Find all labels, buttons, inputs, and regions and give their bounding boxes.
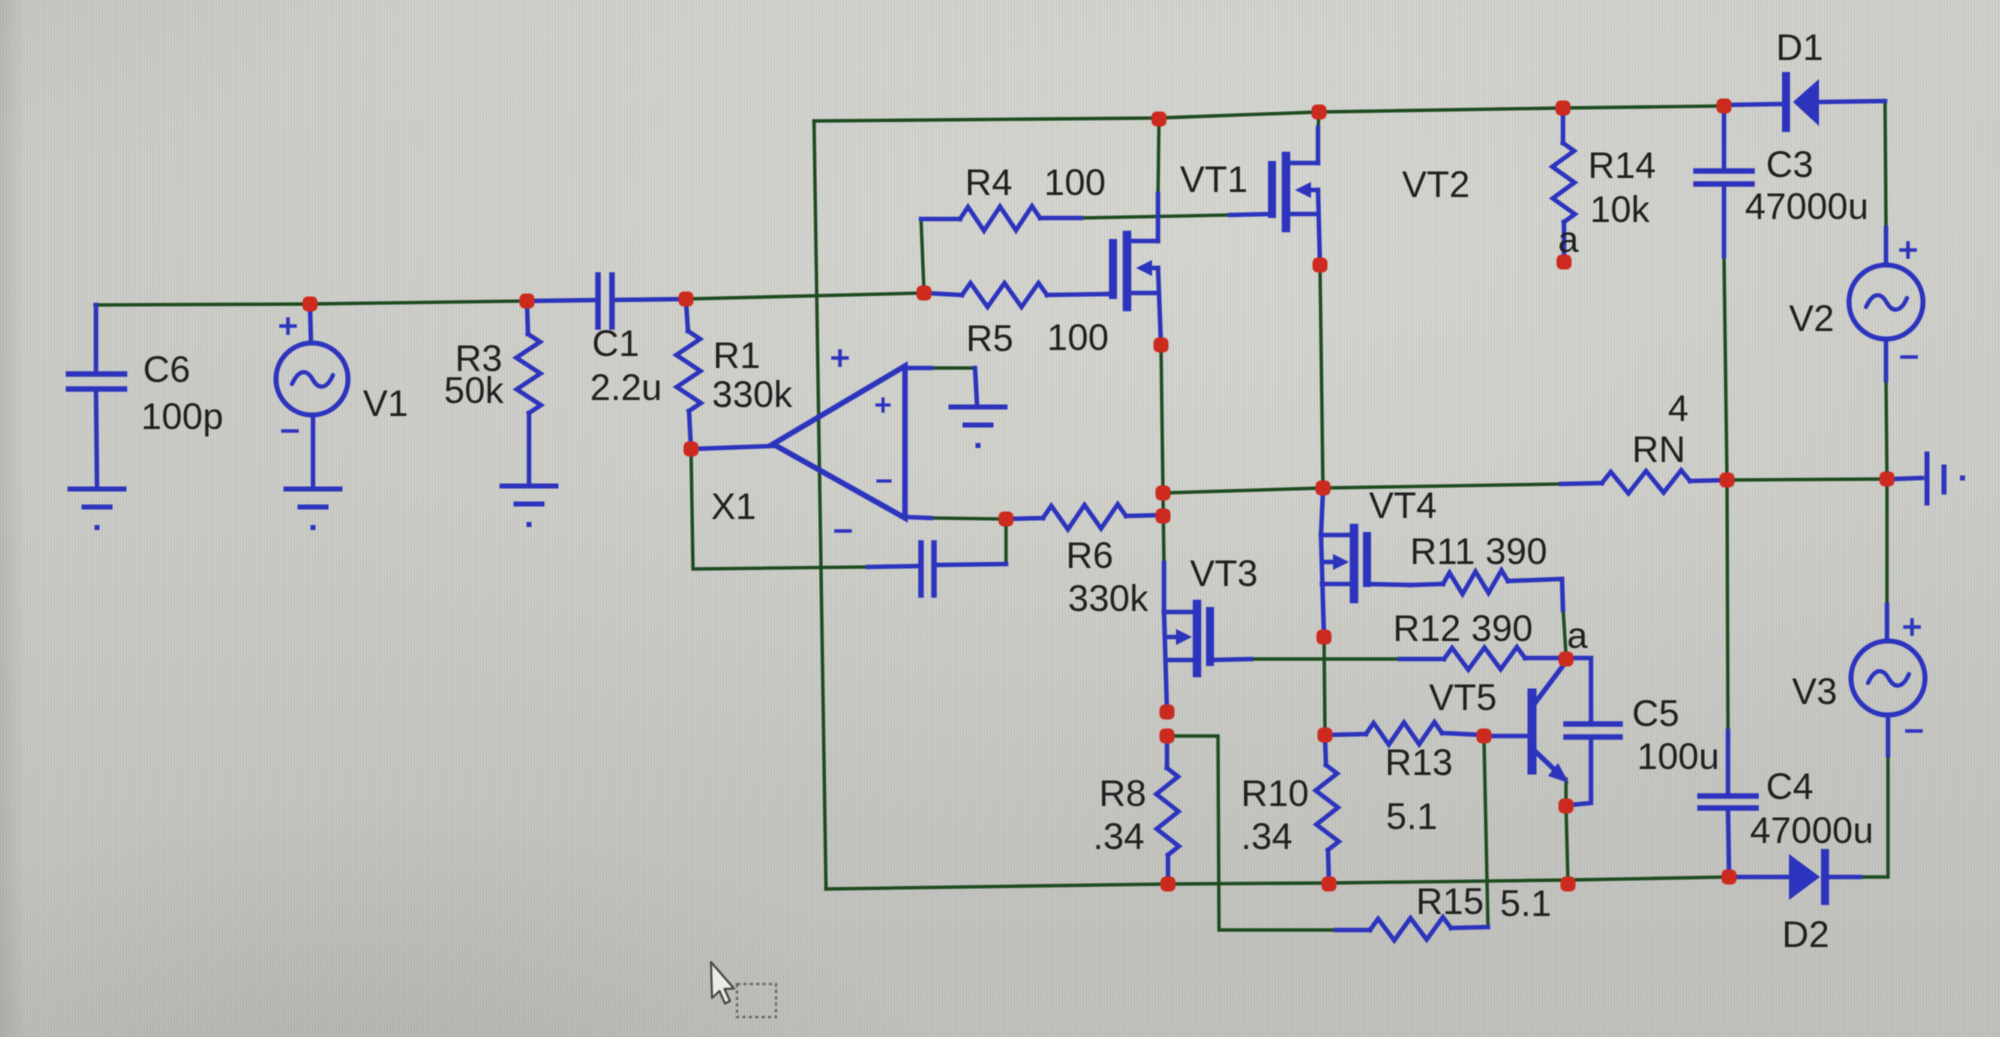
wire input net (C6 / V1 / R3 / C1 / R4-R5 node) — [95, 219, 924, 305]
wire V3 minus to bottom corner to D2 — [1860, 753, 1888, 877]
wire RN to supply ground node — [1727, 479, 1887, 480]
label V2 — [1789, 298, 1834, 339]
junction top rail/VT1 drain — [1152, 112, 1167, 127]
svg-text:10k: 10k — [1590, 189, 1650, 230]
label C5 value — [1637, 736, 1719, 777]
junction input/R4/R5 — [917, 286, 932, 301]
svg-text:100: 100 — [1044, 162, 1106, 203]
transistor VT4 (MOSFET) — [1321, 490, 1410, 637]
junction emitter column/bottom rail — [1561, 877, 1576, 892]
svg-text:VT3: VT3 — [1190, 553, 1258, 594]
junction input/R1 — [679, 292, 694, 307]
wire bottom -V rail — [826, 877, 1729, 889]
svg-text:2.2u: 2.2u — [590, 367, 662, 408]
label R10 — [1241, 773, 1309, 814]
svg-text:C6: C6 — [143, 349, 190, 390]
label C3 value — [1745, 186, 1868, 227]
svg-text:100: 100 — [1047, 317, 1109, 358]
label C3 — [1766, 144, 1813, 185]
label VT1 — [1180, 159, 1248, 200]
label VT2 — [1402, 164, 1470, 205]
svg-text:R8: R8 — [1099, 773, 1146, 814]
junction R6/output column — [1156, 509, 1171, 524]
ground at supply midpoint — [1893, 454, 1965, 503]
label R4 — [965, 162, 1012, 203]
label C4 value — [1750, 810, 1873, 851]
svg-text:X1: X1 — [711, 486, 756, 527]
label R10 value — [1241, 816, 1292, 857]
capacitor C4 — [1700, 731, 1756, 873]
capacitor C1 — [527, 275, 686, 327]
svg-text:RN: RN — [1632, 429, 1685, 470]
svg-text:a: a — [1558, 219, 1579, 260]
transistor VT3 (MOSFET) — [1164, 563, 1251, 712]
wire right rail (D1 to V2) — [1885, 101, 1886, 228]
svg-text:VT1: VT1 — [1180, 159, 1248, 200]
wire VT1 source to VT3 drain column — [1161, 345, 1164, 565]
svg-text:R10: R10 — [1241, 773, 1309, 814]
resistor R4 — [921, 206, 1081, 231]
label R3 value — [444, 370, 504, 411]
junction top rail/C3/D1 — [1717, 99, 1732, 114]
resistor R12 — [1400, 647, 1566, 670]
label R15 value — [1500, 883, 1551, 924]
svg-text:.34: .34 — [1093, 816, 1144, 857]
label X1 — [711, 486, 756, 527]
junction VT2 source — [1313, 258, 1328, 273]
svg-text:C5: C5 — [1632, 693, 1679, 734]
resistor R11 — [1410, 570, 1563, 610]
svg-text:R5: R5 — [966, 318, 1013, 359]
transistor VT2 (MOSFET) — [1230, 128, 1320, 265]
svg-text:5.1: 5.1 — [1386, 796, 1437, 837]
svg-text:100p: 100p — [141, 396, 223, 437]
label R8 value — [1093, 816, 1144, 857]
transistor VT5 (NPN) — [1484, 663, 1569, 783]
junction top rail/R14 — [1556, 101, 1571, 116]
label R1 value — [712, 374, 793, 415]
resistor RN (load) — [1561, 470, 1727, 493]
label V1 — [363, 383, 408, 424]
label D1 — [1776, 27, 1823, 68]
wire top +V rail — [814, 106, 1724, 121]
label node a — [1567, 615, 1588, 656]
svg-text:VT5: VT5 — [1429, 677, 1497, 718]
label VT3 — [1190, 553, 1258, 594]
wire VT2 source to VT4 drain column — [1320, 265, 1323, 490]
diode D2 — [1729, 853, 1860, 901]
svg-text:5.1: 5.1 — [1500, 883, 1551, 924]
ground below V1 — [286, 489, 340, 530]
wire VT5 emitter column — [1566, 779, 1568, 884]
label node a at R14 — [1558, 219, 1579, 260]
svg-text:.34: .34 — [1241, 816, 1292, 857]
junction C4/D2/bottom rail — [1722, 870, 1737, 885]
svg-text:V2: V2 — [1789, 298, 1834, 339]
label V3 — [1792, 671, 1837, 712]
label R13 value — [1386, 796, 1437, 837]
svg-text:R4: R4 — [965, 162, 1012, 203]
wire X1 minus input to R6 — [929, 518, 1006, 519]
wire R15 right to R13 node — [1484, 738, 1488, 927]
svg-text:330k: 330k — [1068, 578, 1149, 619]
source V1 — [276, 306, 348, 487]
svg-text:4: 4 — [1668, 388, 1689, 429]
junction R13/VT5 base/R15 — [1477, 729, 1492, 744]
junction VT1 source — [1154, 338, 1169, 353]
label R12 — [1393, 608, 1533, 649]
label R15 — [1416, 881, 1484, 922]
junction input/R3 — [520, 294, 535, 309]
junction R10/bottom rail — [1322, 877, 1337, 892]
svg-text:a: a — [1567, 615, 1588, 656]
svg-text:VT4: VT4 — [1369, 485, 1437, 526]
resistor R3 — [516, 303, 541, 484]
junction supply ground node — [1880, 472, 1895, 487]
label R13 — [1385, 742, 1453, 783]
wire X1 plus input to ground — [928, 366, 975, 369]
wire C3-C4 midpoint column — [1724, 255, 1728, 731]
label RN — [1632, 429, 1685, 470]
wire V2 minus to ground node to V3 plus — [1886, 378, 1887, 605]
transistor VT1 (MOSFET) — [1108, 194, 1161, 345]
label R3 — [455, 338, 502, 379]
label R11 — [1410, 531, 1547, 572]
source V3 — [1851, 605, 1925, 755]
junction RN line/VT4 drain — [1316, 481, 1331, 496]
label R6 — [1066, 535, 1113, 576]
wire R4 to VT2 gate — [1081, 215, 1230, 218]
svg-text:R15: R15 — [1416, 881, 1484, 922]
junction VT3 source — [1160, 705, 1175, 720]
label C4 — [1766, 766, 1813, 807]
label R8 — [1099, 773, 1146, 814]
label RN value — [1668, 388, 1689, 429]
svg-text:D2: D2 — [1782, 914, 1829, 955]
label D2 — [1782, 914, 1829, 955]
resistor R14 — [1552, 110, 1575, 254]
wire output node horizontal to RN — [1163, 484, 1561, 493]
diode D1 — [1724, 76, 1885, 128]
junction output column/RN line — [1156, 486, 1171, 501]
wire R11 corner to node a — [1563, 608, 1566, 655]
capacitor C2 — [868, 543, 1006, 595]
junction RN/C3-C4 column — [1720, 473, 1735, 488]
label C1 value — [590, 367, 662, 408]
node a junction R11/R12/VT5 collector — [1559, 652, 1574, 667]
resistor R5 — [924, 283, 1108, 307]
svg-text:R13: R13 — [1385, 742, 1453, 783]
svg-text:C1: C1 — [592, 323, 639, 364]
svg-text:R11 390: R11 390 — [1410, 531, 1547, 572]
resistor R8 — [1156, 738, 1179, 884]
wire left power vertical (X1 supply) — [814, 121, 826, 889]
ground at X1 plus input — [951, 407, 1005, 448]
svg-text:R1: R1 — [713, 335, 760, 376]
label R5 — [966, 318, 1013, 359]
junction top rail/VT2 drain — [1312, 105, 1327, 120]
svg-text:R6: R6 — [1066, 535, 1113, 576]
svg-text:R14: R14 — [1588, 145, 1656, 186]
svg-text:C4: C4 — [1766, 766, 1813, 807]
label R6 value — [1068, 578, 1149, 619]
resistor R10 — [1316, 737, 1339, 884]
resistor R1 — [676, 301, 701, 449]
svg-text:D1: D1 — [1776, 27, 1823, 68]
svg-text:V3: V3 — [1792, 671, 1837, 712]
wire VT2 drain column — [1318, 112, 1319, 130]
junction R8/R15 tap — [1160, 729, 1175, 744]
resistor R13 — [1325, 722, 1484, 745]
label C5 — [1632, 693, 1679, 734]
op-amp X1 — [691, 351, 977, 531]
wire X1 output / C2 loop — [691, 449, 1006, 569]
svg-text:50k: 50k — [444, 370, 504, 411]
junction input/V1 — [303, 297, 318, 312]
wire VT4 source to R13 column — [1324, 637, 1325, 735]
svg-text:47000u: 47000u — [1745, 186, 1868, 227]
label C1 — [592, 323, 639, 364]
junction VT4 source — [1317, 630, 1332, 645]
capacitor C3 — [1696, 106, 1752, 256]
ground below C6 — [70, 489, 124, 530]
wire VT3 gate / R12 line — [1251, 657, 1400, 660]
junction C5/VT5 emitter — [1559, 799, 1574, 814]
wire node a to C5 — [1566, 658, 1591, 724]
capacitor C5 — [1566, 724, 1620, 805]
junction R13/R10 — [1318, 728, 1333, 743]
label R14 value — [1590, 189, 1650, 230]
svg-text:100u: 100u — [1637, 736, 1719, 777]
label C6 value — [141, 396, 223, 437]
source V2 — [1849, 228, 1923, 380]
label R5 value — [1047, 317, 1109, 358]
svg-text:VT2: VT2 — [1402, 164, 1470, 205]
label VT5 — [1429, 677, 1497, 718]
label R1 — [713, 335, 760, 376]
junction X1 minus/C2/R6 — [999, 512, 1014, 527]
svg-text:V1: V1 — [363, 383, 408, 424]
label R14 — [1588, 145, 1656, 186]
resistor R15 — [1336, 917, 1488, 940]
label R4 value — [1044, 162, 1106, 203]
svg-text:C3: C3 — [1766, 144, 1813, 185]
svg-text:47000u: 47000u — [1750, 810, 1873, 851]
resistor R6 — [1006, 504, 1162, 529]
wire R8 node to R15 loop — [1167, 736, 1336, 930]
junction X1 output/R1 — [684, 442, 699, 457]
capacitor C6 — [69, 305, 125, 487]
node a below R14 — [1557, 255, 1572, 270]
label C6 — [143, 349, 190, 390]
label VT4 — [1369, 485, 1437, 526]
mouse cursor with selection box — [711, 962, 776, 1017]
junction R8/bottom rail — [1161, 877, 1176, 892]
svg-text:R12 390: R12 390 — [1393, 608, 1533, 649]
wire VT1 drain column — [1158, 119, 1159, 196]
ground below R3 — [502, 486, 556, 527]
svg-text:330k: 330k — [712, 374, 793, 415]
